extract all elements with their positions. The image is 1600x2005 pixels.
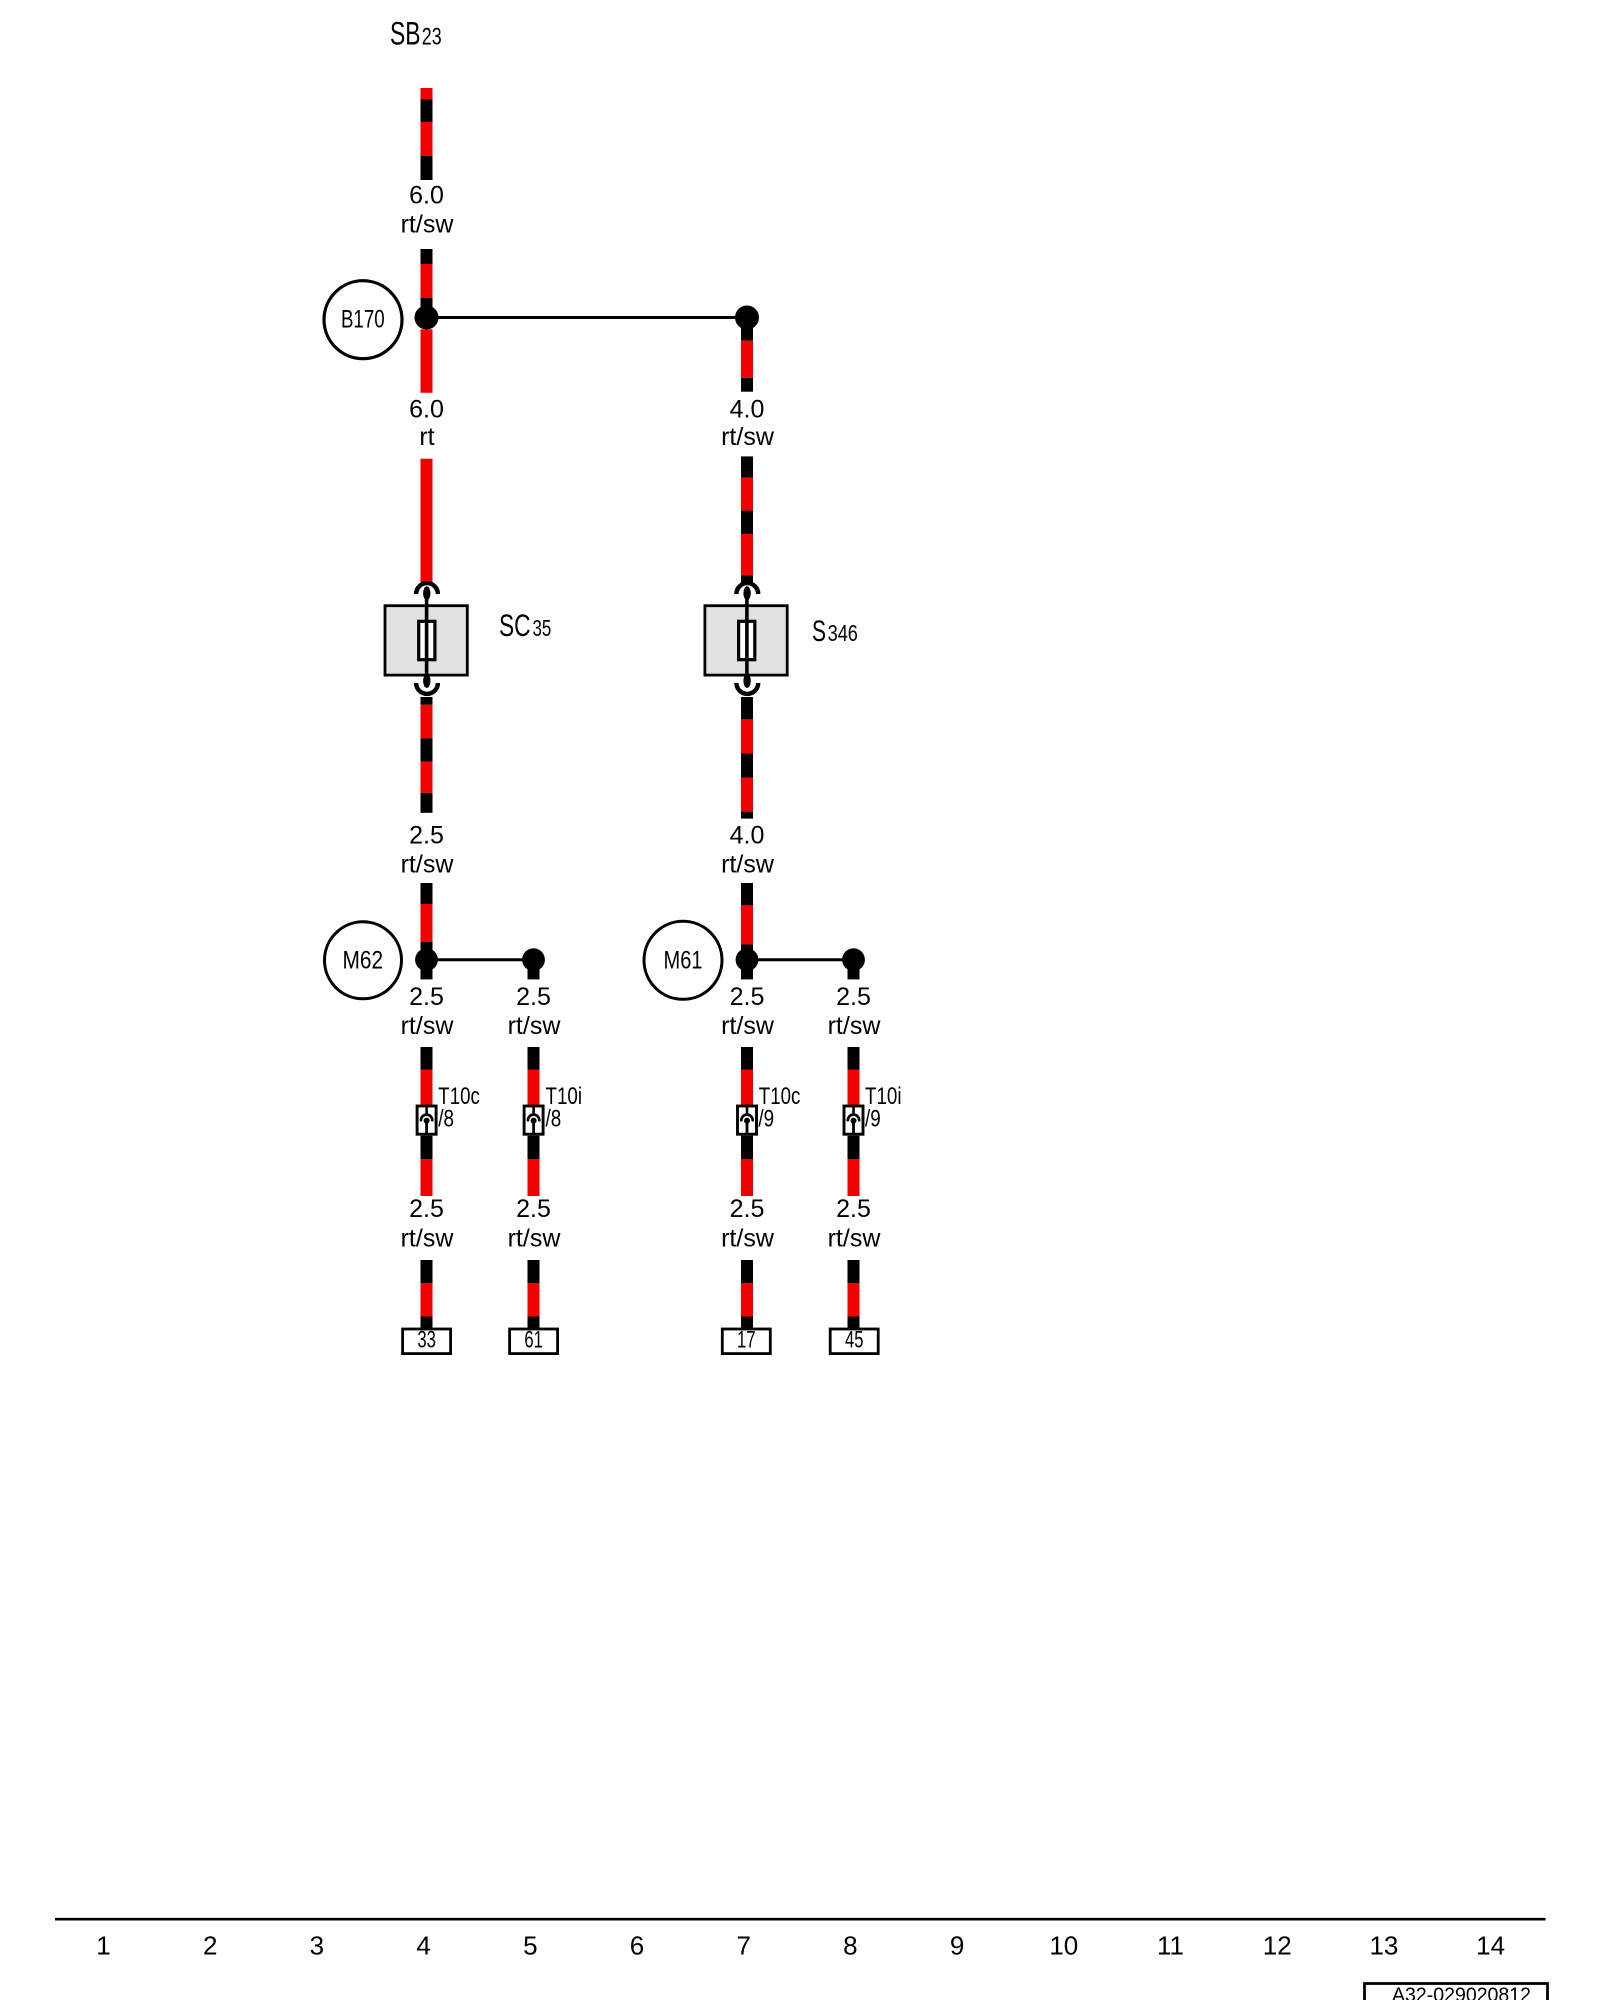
svg-text:rt/sw: rt/sw [401, 1225, 455, 1253]
terminal box 33 [403, 1327, 451, 1354]
svg-text:rt/sw: rt/sw [401, 211, 455, 239]
wire feed to fuse S346 (dashed) [741, 456, 753, 582]
wire segment down to junction B170 [421, 249, 433, 318]
svg-text:35: 35 [533, 615, 552, 641]
wire below T10i/8 [528, 1136, 540, 1196]
svg-text:3: 3 [310, 1931, 324, 1961]
wire label 4.0 rt/sw [721, 396, 775, 452]
wire label 6.0 rt/sw [401, 182, 455, 239]
svg-text:23: 23 [422, 24, 442, 51]
wire to connector T10i/9 [848, 1047, 860, 1105]
svg-text:9: 9 [950, 1931, 964, 1961]
wire label 2.5 rt/sw (lower, branch 1) [401, 1195, 455, 1253]
svg-text:2.5: 2.5 [516, 1195, 551, 1223]
svg-text:17: 17 [737, 1327, 756, 1354]
svg-text:6: 6 [630, 1931, 644, 1961]
wire below junction left (6.0 rt, solid red) [421, 329, 433, 393]
svg-text:rt/sw: rt/sw [508, 1012, 562, 1040]
wire below S346 (4.0 rt/sw) [741, 697, 753, 819]
svg-text:1: 1 [96, 1931, 110, 1961]
wire below SC35 (2.5 rt/sw) [421, 697, 433, 813]
svg-text:2.5: 2.5 [836, 1195, 871, 1223]
fuse S346 [705, 583, 787, 694]
wire label 2.5 rt/sw (col 4) [401, 822, 455, 879]
wire label 6.0 rt [409, 396, 444, 452]
svg-text:rt/sw: rt/sw [508, 1225, 562, 1253]
svg-text:14: 14 [1476, 1931, 1505, 1961]
svg-text:rt/sw: rt/sw [721, 423, 775, 451]
wire feed to fuse SC35 (solid red) [421, 459, 433, 583]
svg-text:5: 5 [523, 1931, 537, 1961]
node junction dot M61 col 8 [842, 948, 865, 979]
connector T10i/8 (pin 8) [524, 1106, 543, 1135]
svg-text:8: 8 [843, 1931, 857, 1961]
svg-text:4: 4 [416, 1931, 430, 1961]
svg-text:61: 61 [524, 1327, 543, 1354]
terminal box 17 [722, 1327, 770, 1354]
node junction dot right (col 7) [735, 306, 759, 330]
svg-text:12: 12 [1263, 1931, 1292, 1961]
wire label 2.5 rt/sw (lower, branch 2) [508, 1195, 562, 1253]
svg-text:7: 7 [736, 1931, 750, 1961]
svg-text:rt/sw: rt/sw [721, 1225, 775, 1253]
terminal box 61 [510, 1327, 558, 1354]
svg-text:rt/sw: rt/sw [401, 1012, 455, 1040]
svg-text:rt: rt [419, 423, 434, 451]
svg-text:2.5: 2.5 [409, 822, 444, 850]
connector label T10c/8 [438, 1083, 480, 1133]
svg-text:6.0: 6.0 [409, 182, 444, 210]
wire to connector T10c/8 [421, 1047, 433, 1105]
node junction dot M61 col 7 [736, 948, 759, 979]
svg-text:M62: M62 [343, 947, 384, 975]
wire below T10c/8 [421, 1136, 433, 1196]
drawing number box A32-029020812 [1365, 1984, 1548, 2005]
connector T10c/8 (pin 8) [417, 1106, 436, 1135]
wire to connector T10c/9 [741, 1047, 753, 1105]
wire label 2.5 rt/sw (lower, branch 3) [721, 1195, 775, 1253]
wire junction link M62 (horizontal) [427, 958, 534, 961]
wire below T10i/9 [848, 1136, 860, 1196]
svg-text:2.5: 2.5 [836, 983, 871, 1011]
svg-text:A32-029020812: A32-029020812 [1392, 1984, 1531, 2001]
bottom rule [55, 1918, 1546, 1921]
svg-text:/9: /9 [758, 1106, 774, 1133]
node junction dot M62 col 5 [522, 948, 545, 979]
wire label 2.5 rt/sw (lower, branch 4) [828, 1195, 882, 1253]
svg-text:45: 45 [845, 1327, 864, 1354]
svg-text:/8: /8 [438, 1106, 454, 1133]
svg-text:M61: M61 [664, 947, 703, 975]
wire label 2.5 rt/sw (branch 1) [401, 983, 455, 1040]
svg-text:11: 11 [1157, 1931, 1184, 1961]
terminal box 45 [830, 1327, 878, 1354]
connector label T10i/8 [546, 1083, 583, 1133]
node junction dot left (col 4) [415, 306, 439, 330]
svg-text:/9: /9 [865, 1106, 881, 1133]
connection circle B170 [324, 281, 402, 359]
svg-text:2.5: 2.5 [409, 1195, 444, 1223]
wire to terminal 45 [848, 1260, 860, 1329]
svg-text:rt/sw: rt/sw [721, 1012, 775, 1040]
svg-text:2: 2 [203, 1931, 217, 1961]
connector T10i/9 (pin 9) [844, 1106, 863, 1135]
node junction dot M62 col 4 [415, 948, 438, 979]
fuse label S346 [812, 615, 858, 648]
svg-text:S: S [812, 615, 826, 648]
svg-text:10: 10 [1049, 1931, 1078, 1961]
wire to terminal 33 [421, 1260, 433, 1329]
svg-text:SC: SC [499, 607, 531, 643]
wire junction link M61 (horizontal) [747, 958, 854, 961]
fuse SC35 [385, 583, 467, 694]
svg-text:2.5: 2.5 [730, 1195, 765, 1223]
svg-text:4.0: 4.0 [730, 822, 765, 850]
connector T10c/9 (pin 9) [738, 1106, 757, 1135]
wire below T10c/9 [741, 1136, 753, 1196]
svg-text:SB: SB [390, 16, 421, 52]
svg-text:2.5: 2.5 [730, 983, 765, 1011]
wire junction link B170 (horizontal) [427, 316, 748, 319]
svg-text:2.5: 2.5 [516, 983, 551, 1011]
svg-text:rt/sw: rt/sw [401, 851, 455, 879]
wire to terminal 17 [741, 1260, 753, 1329]
svg-text:rt/sw: rt/sw [828, 1225, 882, 1253]
fuse label SC35 [499, 607, 551, 643]
svg-text:346: 346 [828, 620, 858, 646]
connection circle M62 [325, 922, 402, 999]
connector label T10i/9 [865, 1083, 902, 1133]
fuse label SB23 [390, 16, 442, 52]
wire to connector T10i/8 [528, 1047, 540, 1105]
wire below junction right (4.0 rt/sw) [741, 318, 753, 392]
svg-text:13: 13 [1369, 1931, 1398, 1961]
wire label 2.5 rt/sw (branch 4) [828, 983, 882, 1040]
svg-text:rt/sw: rt/sw [828, 1012, 882, 1040]
connection circle M61 [644, 921, 722, 999]
svg-text:/8: /8 [546, 1106, 562, 1133]
svg-text:33: 33 [417, 1327, 436, 1354]
svg-text:2.5: 2.5 [409, 983, 444, 1011]
svg-text:4.0: 4.0 [730, 396, 765, 424]
wire down to junction M62 [421, 883, 433, 960]
column numbers 1-14 [96, 1931, 1505, 1961]
wire from SB23, upper dashed segment (6.0 rt/sw) [421, 88, 433, 180]
svg-text:B170: B170 [341, 306, 385, 334]
wire down to junction M61 [741, 883, 753, 960]
wire label 2.5 rt/sw (branch 3) [721, 983, 775, 1040]
connector label T10c/9 [758, 1083, 800, 1133]
svg-text:6.0: 6.0 [409, 396, 444, 424]
svg-text:rt/sw: rt/sw [721, 851, 775, 879]
wire label 4.0 rt/sw (col 7) [721, 822, 775, 879]
wire to terminal 61 [528, 1260, 540, 1329]
wire label 2.5 rt/sw (branch 2) [508, 983, 562, 1040]
